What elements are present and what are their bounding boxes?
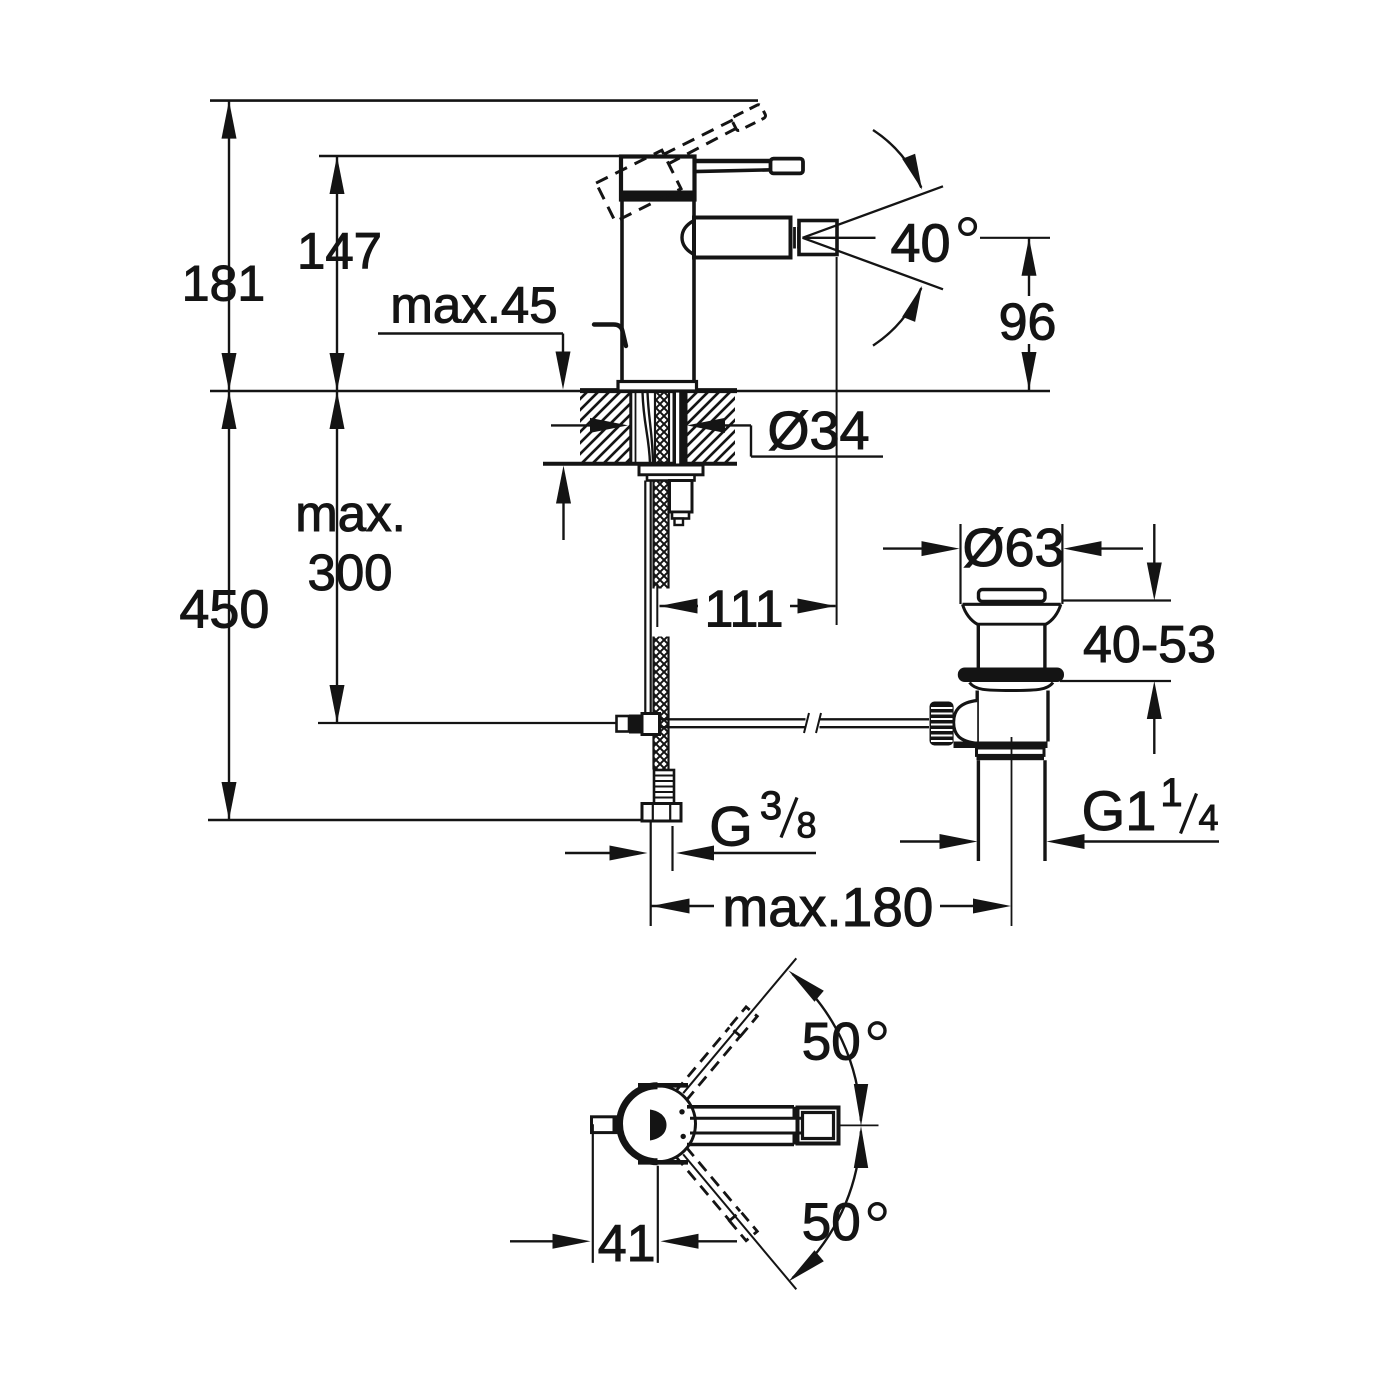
svg-text:300: 300: [307, 544, 392, 601]
svg-text:111: 111: [704, 581, 783, 639]
svg-text:41: 41: [598, 1215, 656, 1273]
svg-text:96: 96: [999, 294, 1057, 352]
svg-text:max.45: max.45: [390, 277, 557, 334]
svg-text:40: 40: [890, 214, 950, 274]
svg-text:50: 50: [802, 1012, 861, 1071]
svg-text:3: 3: [760, 784, 782, 828]
svg-text:50: 50: [802, 1193, 861, 1252]
svg-text:max.: max.: [295, 485, 406, 542]
svg-text:40-53: 40-53: [1083, 616, 1216, 674]
svg-text:181: 181: [182, 256, 265, 312]
svg-text:450: 450: [179, 580, 269, 640]
svg-text:max.180: max.180: [722, 876, 933, 938]
svg-text:Ø34: Ø34: [767, 401, 869, 461]
svg-text:G1: G1: [1082, 779, 1157, 842]
svg-text:8: 8: [796, 805, 816, 846]
svg-text:4: 4: [1198, 797, 1218, 838]
svg-text:Ø63: Ø63: [962, 518, 1064, 578]
svg-text:147: 147: [297, 223, 382, 280]
svg-text:1: 1: [1160, 771, 1182, 815]
svg-text:G: G: [709, 795, 753, 858]
